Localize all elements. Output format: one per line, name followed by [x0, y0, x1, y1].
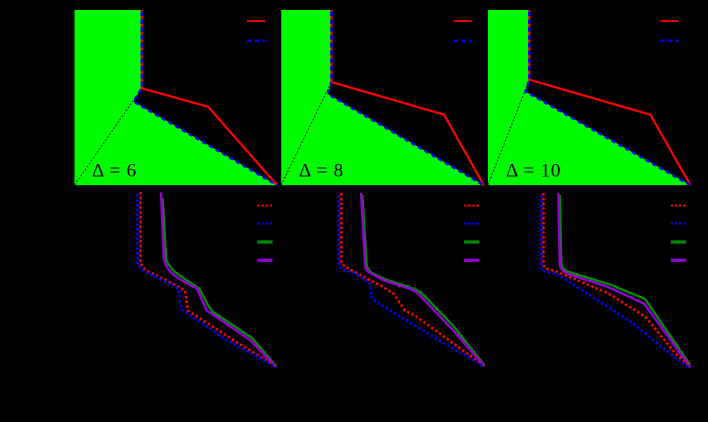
svg-text:Δ = 6: Δ = 6	[92, 160, 137, 181]
svg-text:Δ = 8: Δ = 8	[299, 160, 344, 181]
svg-text:Δ = 10: Δ = 10	[506, 160, 561, 181]
